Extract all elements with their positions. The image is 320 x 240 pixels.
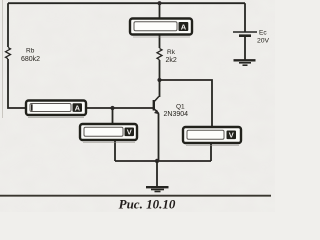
wire voltmeter V1 to ground rail — [114, 140, 116, 161]
svg-text:A: A — [75, 103, 81, 112]
svg-text:Рис. 10.10: Рис. 10.10 — [119, 197, 176, 212]
svg-text:680k2: 680k2 — [21, 56, 40, 63]
node collector junction — [157, 78, 161, 82]
wire battery drop — [244, 3, 246, 31]
ammeter A2 (collector current) — [130, 19, 192, 38]
svg-text:Ec: Ec — [259, 30, 267, 37]
svg-text:V: V — [229, 131, 234, 140]
wire left vertical upper — [7, 3, 9, 47]
svg-text:A: A — [181, 22, 187, 31]
svg-text:20V: 20V — [257, 38, 270, 45]
wire ammeter A2 to resistor Rk — [159, 35, 161, 49]
svg-text:V: V — [127, 128, 132, 137]
node top rail junction — [157, 1, 161, 5]
ammeter A1 (base current) — [26, 101, 86, 118]
wire emitter down — [158, 114, 160, 162]
wire top rail — [8, 2, 245, 4]
wire left vertical lower — [8, 59, 26, 108]
horizontal page rule — [0, 195, 271, 197]
wire top meter drop — [159, 3, 161, 18]
transistor Q1 — [154, 97, 159, 114]
wire ground rail — [115, 160, 211, 162]
wire resistor Rk to collector node — [159, 60, 161, 80]
resistor Rk zigzag — [157, 49, 162, 60]
node ground rail junction — [155, 159, 159, 163]
voltmeter V2 (collector voltage) — [183, 127, 241, 146]
ground (emitter) — [146, 187, 169, 191]
wire base node to voltmeter V1 — [112, 108, 114, 124]
wire collector node down to transistor — [159, 80, 161, 97]
svg-text:2N3904: 2N3904 — [164, 111, 189, 118]
voltmeter V1 (base voltage) — [80, 124, 137, 143]
wire base from ammeter A1 to Q1 — [86, 107, 154, 109]
node base junction — [110, 106, 114, 110]
scan edge artifact line — [2, 0, 4, 118]
battery Ec plates — [233, 32, 257, 36]
svg-text:Rb: Rb — [26, 48, 35, 55]
wire ground stub (emitter) — [156, 161, 158, 187]
svg-text:2k2: 2k2 — [166, 57, 177, 64]
svg-text:Rk: Rk — [167, 49, 176, 56]
wire voltmeter V2 to ground rail — [210, 143, 212, 161]
wire battery to ground — [244, 37, 246, 60]
svg-text:Q1: Q1 — [176, 104, 185, 111]
ground (battery) — [234, 60, 256, 65]
resistor Rb zigzag — [6, 48, 11, 59]
wire collector node to voltmeter V2 — [160, 80, 213, 127]
